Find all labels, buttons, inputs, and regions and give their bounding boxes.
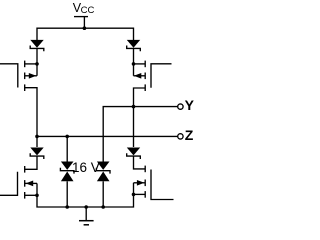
zener pair D5 (16 V clamp, left)	[60, 162, 74, 182]
transistor Q1 (top-left P-channel)	[0, 61, 37, 137]
wire right drain node to body tap	[133, 64, 135, 76]
wire top VCC rail with branch drops	[37, 28, 134, 40]
node D: Q4 source junction	[132, 193, 136, 197]
node rail ground junction	[84, 205, 88, 209]
zener diode D2 (top right)	[127, 40, 141, 64]
node A: left drain junction	[35, 62, 39, 66]
zener diode D4 (right protection)	[127, 148, 141, 160]
wire left zener pair to ground rail	[66, 181, 68, 207]
wire Z line to output terminal	[37, 135, 178, 137]
terminal Y circle	[178, 104, 183, 109]
wire VCC stem	[83, 17, 85, 28]
node VCC rail junction	[83, 26, 87, 30]
wire right zener pair to ground rail	[102, 181, 104, 207]
node rail right zener junction	[101, 205, 105, 209]
label 16 V	[72, 160, 100, 175]
wire Z node down to zener D3	[36, 136, 38, 147]
wire left drain node to body tap	[36, 64, 38, 76]
node B: right drain junction	[132, 62, 136, 66]
node Y junction	[132, 105, 136, 109]
ground	[79, 207, 94, 225]
label Y	[185, 97, 194, 113]
label Z	[185, 127, 194, 143]
zener diode D1 (top left)	[30, 40, 44, 64]
zener diode D3 (left protection)	[30, 148, 44, 160]
wire Q3 body to source	[36, 183, 38, 195]
node Z clamp tap	[65, 135, 69, 139]
node C: Q3 source junction	[35, 194, 39, 198]
wire Y branch down to zener D4	[133, 107, 135, 147]
transistor Q4 (bottom-right N-channel)	[134, 156, 174, 199]
terminal Z circle	[178, 134, 183, 139]
wire bottom ground rail with end risers	[37, 194, 134, 207]
transistor Q2 (top-right P-channel)	[134, 61, 172, 107]
transistor Q3 (bottom-left N-channel)	[0, 156, 37, 199]
wire Y line to output terminal and clamp branch	[103, 107, 178, 162]
node Z junction left	[35, 135, 39, 139]
node rail left zener junction	[65, 205, 69, 209]
wire Z clamp tap down to zener pair	[66, 136, 68, 161]
wire VCC terminal bar	[74, 16, 88, 18]
label VCC	[73, 1, 95, 16]
wire Q4 body to source	[133, 183, 135, 195]
zener pair D6 (16 V clamp, right)	[96, 162, 110, 182]
